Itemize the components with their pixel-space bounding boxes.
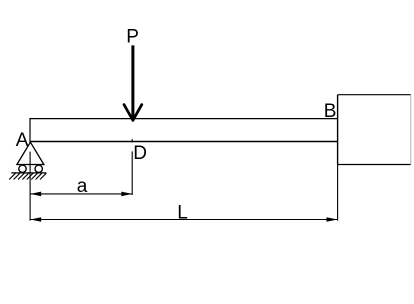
svg-text:D: D xyxy=(133,143,147,164)
svg-text:a: a xyxy=(77,176,88,197)
svg-text:L: L xyxy=(177,202,188,223)
svg-text:B: B xyxy=(324,101,337,122)
svg-text:A: A xyxy=(16,130,29,151)
svg-text:P: P xyxy=(126,26,139,47)
